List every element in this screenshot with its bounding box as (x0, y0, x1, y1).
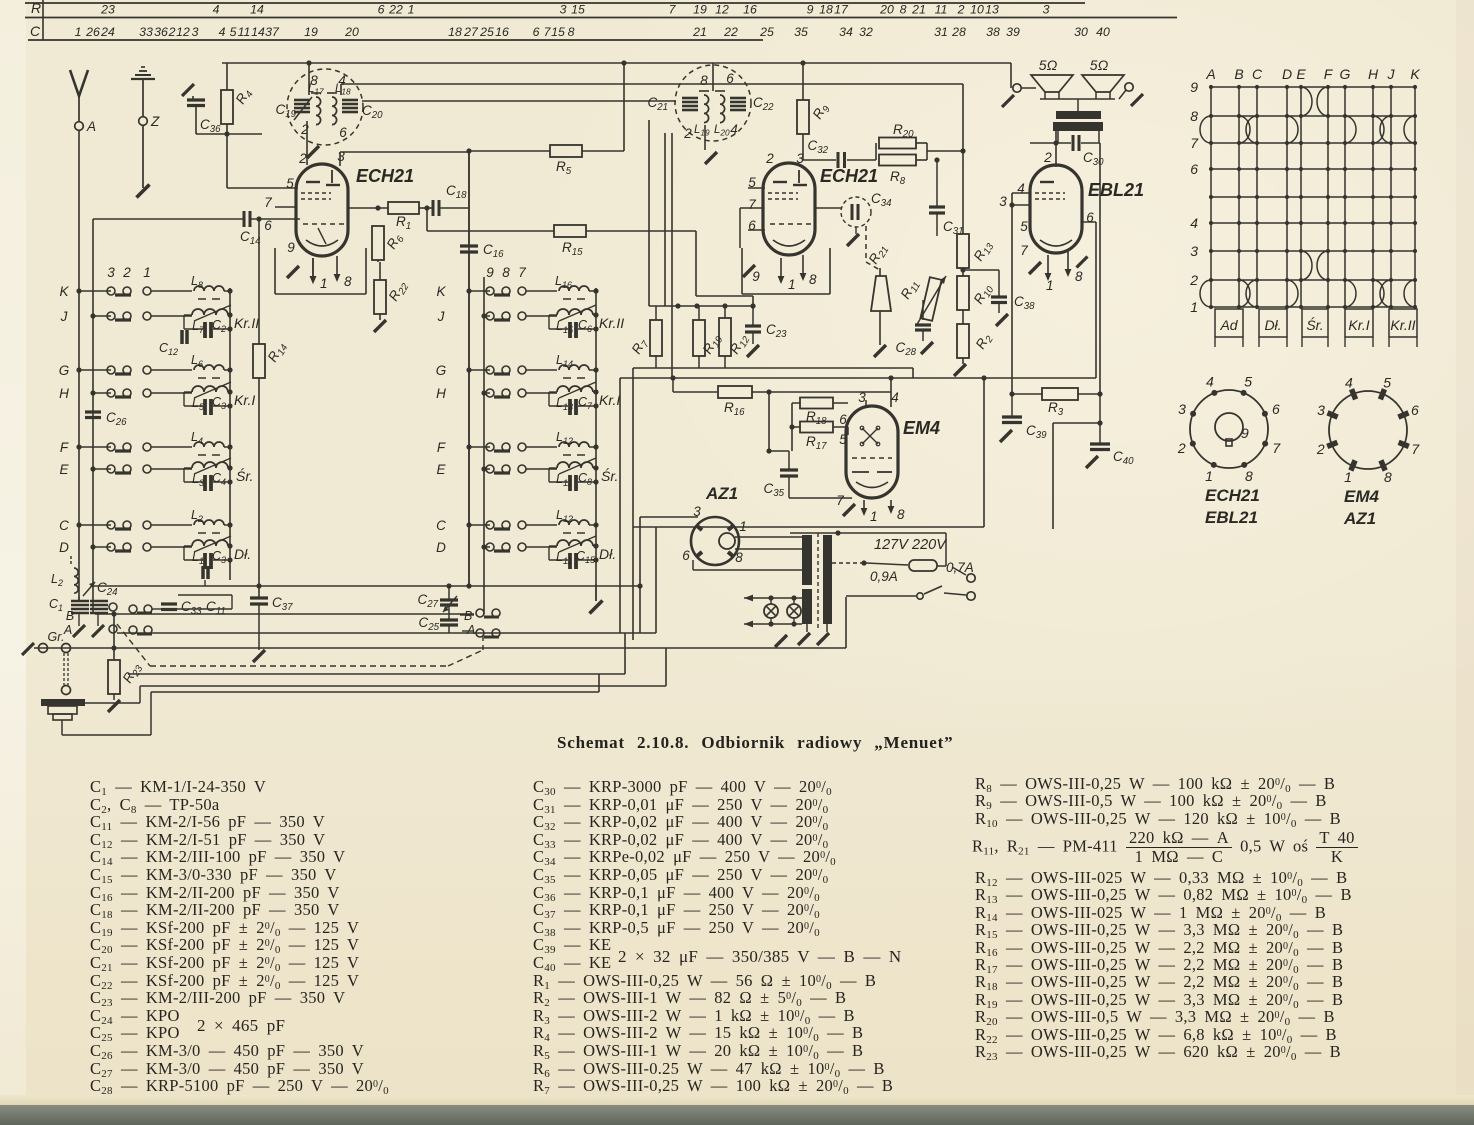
svg-text:L12: L12 (556, 430, 573, 446)
svg-text:C: C (59, 518, 69, 533)
svg-text:Kr.I: Kr.I (599, 392, 620, 408)
svg-text:2: 2 (298, 151, 307, 166)
svg-text:1: 1 (739, 519, 747, 534)
svg-text:C14: C14 (240, 229, 261, 247)
svg-text:32: 32 (859, 25, 873, 39)
svg-text:2: 2 (122, 265, 131, 280)
svg-text:1: 1 (75, 25, 82, 39)
svg-text:127V: 127V (874, 537, 909, 553)
svg-text:Dł.: Dł. (1264, 317, 1281, 333)
svg-text:5: 5 (1244, 374, 1252, 390)
svg-text:1: 1 (788, 277, 796, 292)
svg-text:R8: R8 (890, 169, 906, 187)
svg-text:C26: C26 (106, 410, 127, 428)
svg-text:C40: C40 (1113, 449, 1134, 467)
svg-text:EM4: EM4 (1344, 487, 1380, 506)
svg-text:C20: C20 (362, 103, 383, 121)
svg-text:2: 2 (168, 25, 176, 39)
svg-text:EBL21: EBL21 (1088, 180, 1144, 200)
svg-text:5: 5 (1020, 219, 1028, 234)
svg-text:2: 2 (300, 122, 309, 137)
svg-text:11: 11 (238, 25, 251, 39)
svg-text:10: 10 (970, 3, 984, 17)
svg-text:ECH21: ECH21 (820, 166, 878, 186)
svg-text:C: C (1252, 66, 1263, 82)
svg-text:D: D (436, 540, 446, 555)
svg-text:Ad: Ad (1219, 317, 1238, 333)
svg-text:K: K (436, 284, 446, 299)
svg-text:C: C (436, 518, 446, 533)
svg-text:R19: R19 (700, 331, 726, 358)
svg-text:C7: C7 (578, 395, 593, 411)
svg-text:2: 2 (765, 151, 774, 166)
svg-text:3: 3 (107, 265, 115, 280)
svg-text:C15: C15 (576, 549, 596, 565)
svg-text:7: 7 (1272, 440, 1281, 456)
svg-text:8: 8 (809, 272, 817, 287)
svg-text:L6: L6 (191, 353, 203, 369)
svg-text:3: 3 (1317, 402, 1325, 418)
svg-text:6: 6 (533, 25, 540, 39)
svg-text:R9: R9 (810, 100, 833, 123)
svg-text:18: 18 (448, 25, 462, 39)
svg-text:G: G (59, 363, 70, 378)
svg-text:7: 7 (518, 265, 526, 280)
svg-text:C32: C32 (807, 138, 828, 156)
svg-text:6: 6 (682, 548, 690, 563)
svg-text:2: 2 (957, 3, 965, 17)
svg-text:7: 7 (836, 493, 844, 508)
svg-text:Gr.: Gr. (48, 630, 65, 644)
svg-text:1: 1 (870, 509, 878, 524)
svg-text:8: 8 (1190, 108, 1198, 124)
svg-text:C3: C3 (212, 395, 226, 411)
svg-text:C6: C6 (578, 318, 592, 334)
svg-text:8: 8 (502, 265, 510, 280)
svg-text:R6: R6 (384, 230, 407, 253)
svg-text:38: 38 (986, 25, 1000, 39)
svg-text:R15: R15 (562, 240, 583, 258)
svg-text:6: 6 (378, 3, 385, 17)
svg-text:7: 7 (264, 195, 272, 210)
svg-text:R7: R7 (629, 335, 652, 358)
svg-text:16: 16 (495, 25, 509, 39)
svg-text:6: 6 (264, 218, 272, 233)
svg-text:R1: R1 (396, 214, 411, 232)
svg-text:C30: C30 (1083, 150, 1104, 168)
svg-text:L11: L11 (556, 472, 572, 488)
svg-text:C39: C39 (1026, 423, 1047, 441)
svg-text:Kr.II: Kr.II (1390, 317, 1415, 333)
svg-text:H: H (59, 386, 69, 401)
svg-text:23: 23 (100, 3, 115, 17)
svg-text:E: E (1296, 66, 1306, 82)
svg-text:0,9A: 0,9A (870, 569, 898, 584)
svg-text:D: D (59, 540, 69, 555)
svg-text:F: F (1324, 66, 1334, 82)
svg-text:2: 2 (1189, 272, 1198, 288)
svg-text:24: 24 (100, 25, 115, 39)
svg-text:J: J (437, 309, 445, 324)
svg-text:7: 7 (1411, 441, 1420, 457)
svg-text:A: A (1205, 66, 1215, 82)
svg-text:8: 8 (1384, 469, 1392, 485)
svg-text:36: 36 (154, 25, 168, 39)
svg-text:22: 22 (723, 25, 738, 39)
svg-text:1: 1 (1205, 468, 1213, 484)
svg-text:C1: C1 (49, 597, 63, 613)
svg-text:C18: C18 (446, 183, 467, 201)
svg-text:8: 8 (1245, 468, 1253, 484)
svg-text:220V: 220V (911, 537, 947, 553)
svg-text:H: H (1368, 66, 1379, 82)
svg-text:12: 12 (176, 25, 190, 39)
svg-text:21: 21 (692, 25, 707, 39)
svg-text:5Ω: 5Ω (1039, 57, 1058, 73)
svg-text:L19: L19 (694, 124, 710, 138)
svg-text:28: 28 (951, 25, 966, 39)
svg-text:8: 8 (700, 73, 708, 88)
svg-text:8: 8 (897, 507, 905, 522)
svg-text:2: 2 (1316, 441, 1325, 457)
svg-text:4: 4 (1345, 375, 1353, 391)
svg-text:4: 4 (1190, 215, 1198, 231)
svg-text:L2: L2 (191, 508, 203, 524)
svg-text:9: 9 (287, 240, 295, 255)
svg-text:15: 15 (571, 3, 585, 17)
svg-text:7: 7 (1190, 135, 1199, 151)
svg-text:R2: R2 (973, 330, 996, 353)
svg-text:C16: C16 (483, 242, 504, 260)
svg-text:11: 11 (935, 3, 948, 17)
svg-text:20: 20 (879, 3, 894, 17)
svg-text:C34: C34 (871, 191, 892, 209)
svg-text:8: 8 (1075, 269, 1083, 284)
svg-text:3: 3 (999, 194, 1007, 209)
svg-text:Kr.II: Kr.II (599, 315, 624, 331)
svg-text:R4: R4 (233, 85, 256, 108)
svg-text:R18: R18 (806, 409, 827, 427)
svg-text:22: 22 (388, 3, 403, 17)
svg-text:R14: R14 (265, 339, 291, 366)
svg-text:ECH21: ECH21 (356, 166, 414, 186)
svg-text:2: 2 (683, 126, 692, 141)
svg-text:37: 37 (265, 25, 280, 39)
svg-text:34: 34 (839, 25, 853, 39)
svg-text:K: K (1410, 66, 1420, 82)
svg-text:8: 8 (310, 73, 318, 88)
svg-text:C36: C36 (200, 117, 221, 135)
svg-text:4: 4 (730, 122, 738, 137)
svg-text:ECH21: ECH21 (1205, 486, 1260, 505)
svg-text:C35: C35 (763, 481, 784, 499)
svg-text:L11: L11 (556, 550, 572, 566)
svg-text:Dł.: Dł. (234, 546, 251, 562)
svg-text:G: G (1340, 66, 1351, 82)
svg-text:C: C (30, 23, 41, 39)
svg-text:Śr.: Śr. (601, 467, 618, 484)
svg-text:B: B (66, 609, 74, 623)
svg-text:20: 20 (344, 25, 359, 39)
svg-text:R3: R3 (1048, 400, 1064, 418)
svg-text:R5: R5 (556, 159, 572, 177)
svg-text:H: H (436, 386, 446, 401)
svg-text:L3: L3 (192, 472, 204, 488)
svg-text:8: 8 (900, 3, 907, 17)
svg-text:7: 7 (669, 3, 677, 17)
svg-text:19: 19 (304, 25, 318, 39)
svg-text:0,7A: 0,7A (946, 560, 974, 575)
svg-text:25: 25 (759, 25, 774, 39)
svg-text:4: 4 (338, 73, 346, 88)
svg-text:6: 6 (339, 125, 347, 140)
svg-text:L5: L5 (192, 396, 205, 412)
svg-text:C37: C37 (272, 595, 293, 613)
svg-text:16: 16 (743, 3, 757, 17)
svg-text:19: 19 (693, 3, 707, 17)
svg-text:L8: L8 (191, 274, 203, 290)
svg-text:31: 31 (934, 25, 948, 39)
svg-text:6: 6 (839, 412, 847, 427)
svg-text:C4: C4 (212, 471, 226, 487)
svg-text:4: 4 (1206, 374, 1214, 390)
svg-text:EBL21: EBL21 (1205, 508, 1258, 527)
svg-text:6: 6 (1411, 402, 1419, 418)
svg-text:C23: C23 (766, 322, 787, 340)
svg-text:25: 25 (479, 25, 494, 39)
svg-text:A: A (466, 623, 475, 637)
svg-text:F: F (437, 440, 446, 455)
svg-text:39: 39 (1006, 25, 1020, 39)
svg-text:C24: C24 (97, 580, 118, 598)
svg-text:Kr.II: Kr.II (234, 315, 259, 331)
svg-text:L2: L2 (51, 572, 63, 588)
svg-text:33: 33 (139, 25, 153, 39)
svg-text:12: 12 (715, 3, 729, 17)
svg-text:30: 30 (1074, 25, 1088, 39)
svg-text:B: B (464, 609, 472, 623)
svg-text:L12: L12 (556, 508, 573, 524)
svg-text:Kr.I: Kr.I (234, 392, 255, 408)
svg-text:5: 5 (839, 432, 847, 447)
svg-text:4: 4 (891, 390, 899, 405)
svg-text:K: K (59, 284, 69, 299)
svg-text:1: 1 (320, 276, 328, 291)
svg-text:R16: R16 (724, 400, 745, 418)
svg-text:C22: C22 (753, 95, 774, 113)
svg-text:B: B (1234, 66, 1243, 82)
svg-text:27: 27 (463, 25, 479, 39)
svg-text:C3: C3 (212, 549, 226, 565)
svg-text:E: E (436, 462, 446, 477)
svg-text:2: 2 (1043, 150, 1052, 165)
svg-text:L20: L20 (714, 124, 730, 138)
svg-text:5: 5 (1383, 375, 1391, 391)
svg-text:C28: C28 (895, 340, 916, 358)
svg-text:1: 1 (143, 265, 151, 280)
svg-text:13: 13 (985, 3, 999, 17)
svg-text:R: R (31, 0, 41, 16)
svg-text:AZ1: AZ1 (1343, 509, 1376, 528)
svg-text:D: D (1282, 66, 1292, 82)
svg-text:4: 4 (213, 3, 220, 17)
svg-text:9: 9 (807, 3, 814, 17)
svg-text:Dł.: Dł. (599, 546, 616, 562)
svg-text:C19: C19 (275, 102, 296, 120)
svg-text:L4: L4 (191, 430, 203, 446)
svg-text:J: J (60, 309, 68, 324)
svg-text:L14: L14 (556, 353, 573, 369)
svg-text:1: 1 (408, 3, 415, 17)
svg-text:3: 3 (192, 25, 199, 39)
svg-text:L13: L13 (556, 396, 573, 412)
svg-text:21: 21 (911, 3, 926, 17)
svg-text:C25: C25 (418, 615, 439, 633)
svg-text:17: 17 (834, 3, 849, 17)
svg-text:14: 14 (251, 25, 265, 39)
svg-text:18: 18 (819, 3, 833, 17)
svg-text:3: 3 (1190, 243, 1198, 259)
svg-text:5Ω: 5Ω (1090, 57, 1109, 73)
svg-text:35: 35 (794, 25, 808, 39)
svg-text:3: 3 (858, 390, 866, 405)
svg-text:R13: R13 (971, 238, 997, 265)
svg-text:R17: R17 (806, 434, 827, 452)
svg-text:1: 1 (1344, 469, 1352, 485)
svg-text:L7: L7 (192, 319, 205, 335)
svg-text:L16: L16 (555, 274, 572, 290)
svg-text:8: 8 (568, 25, 575, 39)
svg-text:C21: C21 (647, 95, 668, 113)
svg-text:6: 6 (1272, 401, 1280, 417)
svg-text:L1: L1 (192, 550, 204, 566)
svg-text:6: 6 (1190, 161, 1198, 177)
svg-text:A: A (86, 119, 96, 134)
svg-text:EM4: EM4 (903, 418, 940, 438)
svg-text:C38: C38 (1014, 294, 1035, 312)
svg-text:L15: L15 (556, 319, 574, 335)
svg-text:3: 3 (560, 3, 567, 17)
svg-text:9: 9 (1241, 425, 1249, 441)
svg-text:1: 1 (1190, 299, 1198, 315)
svg-text:3: 3 (1178, 401, 1186, 417)
svg-text:G: G (436, 363, 447, 378)
svg-text:Śr.: Śr. (1306, 316, 1323, 333)
svg-text:C12: C12 (159, 341, 178, 357)
svg-text:14: 14 (250, 3, 264, 17)
svg-text:J: J (1387, 66, 1396, 82)
svg-text:2: 2 (1177, 440, 1186, 456)
svg-text:26: 26 (85, 25, 100, 39)
svg-text:8: 8 (735, 550, 743, 565)
svg-text:F: F (60, 440, 69, 455)
svg-text:Śr.: Śr. (236, 467, 253, 484)
svg-text:40: 40 (1096, 25, 1110, 39)
svg-text:15: 15 (551, 25, 565, 39)
svg-text:8: 8 (344, 274, 352, 289)
svg-text:R22: R22 (386, 278, 412, 305)
svg-text:7: 7 (1020, 243, 1028, 258)
svg-text:7: 7 (748, 197, 756, 212)
svg-text:R11: R11 (898, 277, 923, 303)
svg-text:9: 9 (1190, 79, 1198, 95)
svg-text:1: 1 (1046, 278, 1054, 293)
svg-text:C8: C8 (578, 471, 592, 487)
svg-text:E: E (59, 462, 69, 477)
svg-text:C2: C2 (212, 318, 226, 334)
svg-text:C27: C27 (417, 592, 438, 610)
svg-text:Z: Z (150, 114, 160, 129)
svg-text:4: 4 (219, 25, 226, 39)
svg-text:Kr.I: Kr.I (1348, 317, 1369, 333)
svg-text:9: 9 (752, 269, 760, 284)
svg-text:5: 5 (230, 25, 237, 39)
svg-text:3: 3 (1043, 3, 1050, 17)
svg-text:9: 9 (486, 265, 494, 280)
svg-text:AZ1: AZ1 (705, 484, 738, 503)
